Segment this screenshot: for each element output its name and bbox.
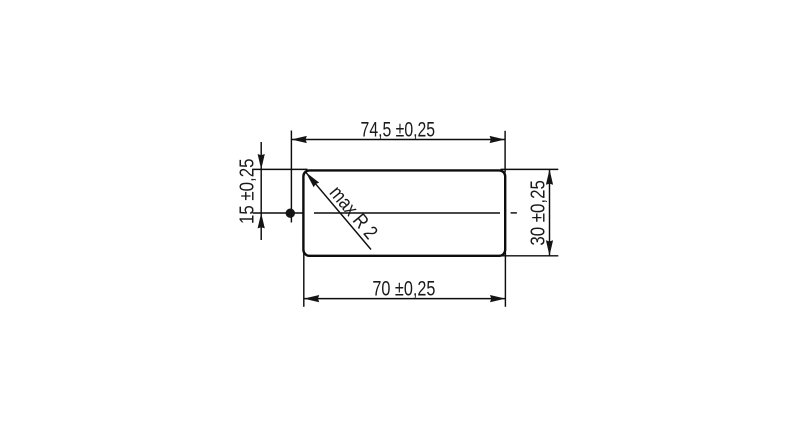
dimension line 70 [304,298,506,300]
svg-text:15 ±0,25: 15 ±0,25 [237,159,259,225]
extension line left (from datum up to 74.5 dim, down past datum) [290,131,292,223]
extension line right-top (for 30 dim) [501,168,559,170]
dimension line 74.5 [291,139,505,141]
extension line bottom-left (for 70 dim) [303,253,305,307]
arrowhead 70 right [490,295,505,302]
arrowhead 30 bottom (points down) [546,240,553,255]
svg-text:30 ±0,25: 30 ±0,25 [527,180,549,246]
arrowhead 70 left [304,295,319,302]
arrowhead 74.5 right [490,136,505,143]
extension line right-bottom (for 30 dim) [501,255,559,257]
extension line top tick (for 15 dim, to rect corner) [253,168,308,170]
arrowhead 15 bottom (points up) [258,213,265,228]
center line short dash outside right edge [511,212,517,214]
leader line max R 2 [306,172,371,249]
datum point marker [286,209,295,218]
extension line right (below rect, for 70 dim) [504,253,506,307]
arrowhead 74.5 left [291,136,306,143]
arrowhead 15 top (points down) [258,154,265,169]
extension line right (above rect, for 74.5 dim) [504,131,506,173]
arrowhead 30 top (points up) [546,169,553,184]
dimension line 15 [260,142,262,240]
arrowhead leader (points to corner radius) [303,170,319,187]
center line (horizontal axis) left segment through datum [253,212,303,214]
dimension line 30 [549,169,551,255]
part outline: rounded rectangle 70x30 [303,170,505,255]
center line inner segment [314,212,500,214]
svg-text:70 ±0,25: 70 ±0,25 [372,276,435,300]
svg-text:74,5 ±0,25: 74,5 ±0,25 [361,118,436,142]
